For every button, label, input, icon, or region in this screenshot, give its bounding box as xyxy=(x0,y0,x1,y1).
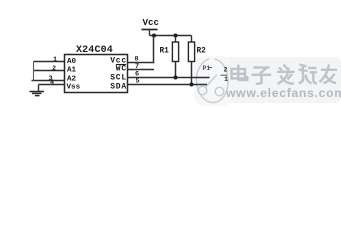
svg-text:A0: A0 xyxy=(67,58,77,66)
svg-text:1: 1 xyxy=(224,76,228,84)
resistor R2 xyxy=(188,36,194,87)
svg-text:A1: A1 xyxy=(67,66,77,74)
svg-text:Vcc: Vcc xyxy=(143,17,160,28)
watermark logo circle xyxy=(196,59,228,103)
友 xyxy=(321,69,337,71)
watermark text 电子发烧友 xyxy=(232,65,338,85)
wire pin2 A1 xyxy=(34,70,65,72)
wire Vcc drop xyxy=(153,36,155,64)
wire pin6 SCL xyxy=(127,77,210,79)
junction dot rail-R1 xyxy=(174,34,178,38)
电 xyxy=(232,69,246,79)
wire pin1 A0 xyxy=(34,61,65,63)
svg-text:R2: R2 xyxy=(197,48,207,56)
ground xyxy=(30,92,45,96)
svg-text:www.elecfans.com: www.elecfans.com xyxy=(225,86,341,100)
wire pin4 Vss xyxy=(39,84,65,86)
Vcc stem xyxy=(149,30,151,36)
svg-text:2: 2 xyxy=(224,66,228,74)
子 xyxy=(254,66,270,68)
chip U1 X24C04 body xyxy=(65,55,128,93)
svg-text:1: 1 xyxy=(53,56,57,64)
wire pin5 SDA xyxy=(127,84,207,86)
wire pin7 WC xyxy=(127,69,154,71)
svg-text:P1: P1 xyxy=(203,65,211,72)
svg-text:Vss: Vss xyxy=(67,84,81,92)
net tick xyxy=(221,74,228,76)
wire Vcc rail xyxy=(150,35,192,37)
发 xyxy=(284,65,288,70)
svg-text:R1: R1 xyxy=(160,48,170,56)
Vcc power bar symbol xyxy=(142,29,158,31)
wire left bus vertical xyxy=(33,62,35,81)
watermark background tint xyxy=(224,57,341,103)
svg-text:X24C04: X24C04 xyxy=(76,45,113,56)
svg-text:SCL: SCL xyxy=(110,73,127,82)
svg-text:A2: A2 xyxy=(67,75,77,83)
svg-text:2: 2 xyxy=(52,65,56,73)
resistor R1 xyxy=(172,36,178,80)
wire pin3 A2 xyxy=(32,80,65,82)
junction dot rail-chip xyxy=(152,34,156,38)
svg-text:4: 4 xyxy=(50,79,54,87)
svg-text:SDA: SDA xyxy=(110,83,127,92)
wire pin8 Vcc xyxy=(127,62,154,64)
svg-text:5: 5 xyxy=(136,78,140,86)
wire ground stem xyxy=(38,85,40,92)
烧 xyxy=(302,65,304,76)
svg-text:WC: WC xyxy=(116,65,127,74)
